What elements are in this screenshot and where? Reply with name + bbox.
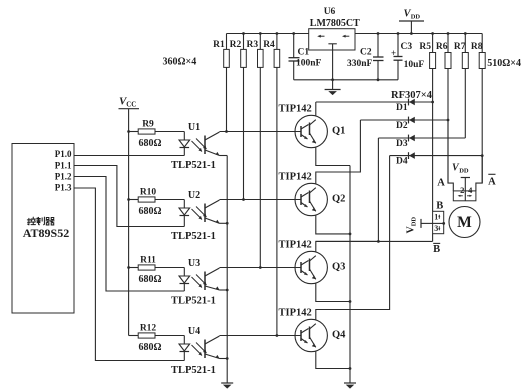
svg-text:C3: C3 [401, 42, 413, 52]
svg-text:Q4: Q4 [332, 330, 346, 341]
svg-text:2: 2 [460, 185, 464, 195]
svg-text:R8: R8 [471, 42, 483, 52]
svg-text:680Ω: 680Ω [139, 274, 162, 285]
svg-text:360Ω×4: 360Ω×4 [163, 57, 197, 68]
svg-text:U4: U4 [188, 326, 200, 337]
svg-text:680Ω: 680Ω [139, 342, 162, 353]
svg-text:R7: R7 [454, 42, 466, 52]
svg-text:TIP142: TIP142 [279, 172, 312, 183]
svg-text:P1.3: P1.3 [55, 183, 72, 193]
svg-text:D1: D1 [396, 103, 408, 113]
svg-text:R1: R1 [213, 40, 225, 50]
svg-text:TLP521-1: TLP521-1 [171, 296, 216, 307]
svg-text:330nF: 330nF [347, 59, 373, 69]
svg-text:U2: U2 [188, 190, 200, 201]
svg-text:R5: R5 [419, 42, 431, 52]
svg-text:Q3: Q3 [332, 262, 345, 273]
svg-text:Q1: Q1 [332, 126, 345, 137]
svg-text:R10: R10 [140, 188, 157, 198]
svg-text:R6: R6 [436, 42, 448, 52]
svg-text:Q2: Q2 [332, 194, 345, 205]
svg-text:680Ω: 680Ω [139, 206, 162, 217]
svg-text:510Ω×4: 510Ω×4 [487, 58, 521, 69]
svg-text:LM7805CT: LM7805CT [310, 18, 360, 29]
svg-text:U3: U3 [188, 258, 200, 269]
svg-text:B: B [436, 201, 443, 212]
svg-text:DD: DD [411, 14, 421, 21]
svg-text:R12: R12 [140, 324, 157, 334]
svg-text:A: A [488, 177, 496, 188]
svg-text:10uF: 10uF [404, 60, 425, 70]
svg-text:TLP521-1: TLP521-1 [171, 365, 216, 376]
svg-text:4: 4 [468, 185, 473, 195]
svg-text:680Ω: 680Ω [139, 138, 162, 149]
svg-text:TIP142: TIP142 [279, 240, 312, 251]
svg-text:R9: R9 [142, 120, 154, 130]
svg-text:R4: R4 [263, 40, 275, 50]
svg-text:CC: CC [126, 101, 136, 109]
svg-text:B: B [433, 244, 440, 255]
svg-text:RF307×4: RF307×4 [391, 90, 433, 101]
svg-text:100nF: 100nF [296, 59, 322, 69]
svg-text:TLP521-1: TLP521-1 [171, 160, 216, 171]
svg-text:+: + [391, 48, 396, 58]
svg-text:C1: C1 [298, 48, 310, 58]
svg-text:U1: U1 [188, 122, 200, 133]
svg-text:D3: D3 [396, 139, 408, 149]
svg-text:C2: C2 [360, 48, 372, 58]
svg-text:R11: R11 [140, 256, 156, 266]
svg-text:P1.2: P1.2 [55, 171, 72, 181]
svg-text:D2: D2 [396, 121, 408, 131]
svg-text:R3: R3 [246, 40, 258, 50]
svg-text:3: 3 [434, 224, 438, 233]
svg-text:M: M [457, 214, 472, 231]
svg-text:AT89S52: AT89S52 [23, 226, 69, 240]
svg-text:TLP521-1: TLP521-1 [171, 231, 216, 242]
svg-text:D4: D4 [396, 157, 408, 167]
svg-text:U6: U6 [324, 7, 336, 17]
svg-text:R2: R2 [230, 40, 242, 50]
svg-text:TIP142: TIP142 [279, 104, 312, 115]
svg-text:TIP142: TIP142 [279, 308, 312, 319]
svg-text:P1.1: P1.1 [55, 160, 72, 170]
svg-text:A: A [437, 177, 445, 188]
svg-text:1: 1 [434, 213, 438, 222]
svg-text:DD: DD [459, 168, 469, 175]
svg-text:P1.0: P1.0 [55, 149, 72, 159]
